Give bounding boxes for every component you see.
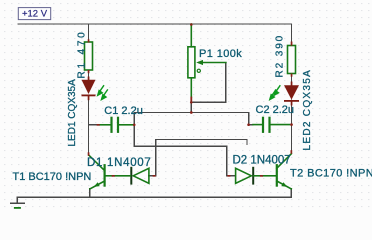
svg-text:R1 470: R1 470 [77,29,88,78]
svg-text:T2 BC170 !NPN: T2 BC170 !NPN [290,168,372,180]
svg-text:P1 100k: P1 100k [199,48,242,60]
svg-text:C2 2.2u: C2 2.2u [256,104,295,116]
svg-text:C1 2.2u: C1 2.2u [104,105,143,117]
svg-text:D1 1N4007: D1 1N4007 [87,157,151,169]
svg-text:LED1 CQX35A: LED1 CQX35A [67,79,78,147]
svg-text:R2 390: R2 390 [275,34,286,78]
svg-text:D2 1N4007: D2 1N4007 [233,155,291,167]
svg-text:+12 V: +12 V [22,9,48,20]
svg-text:LED2 CQX35A: LED2 CQX35A [302,69,313,151]
svg-text:T1 BC170 !NPN: T1 BC170 !NPN [13,171,92,183]
